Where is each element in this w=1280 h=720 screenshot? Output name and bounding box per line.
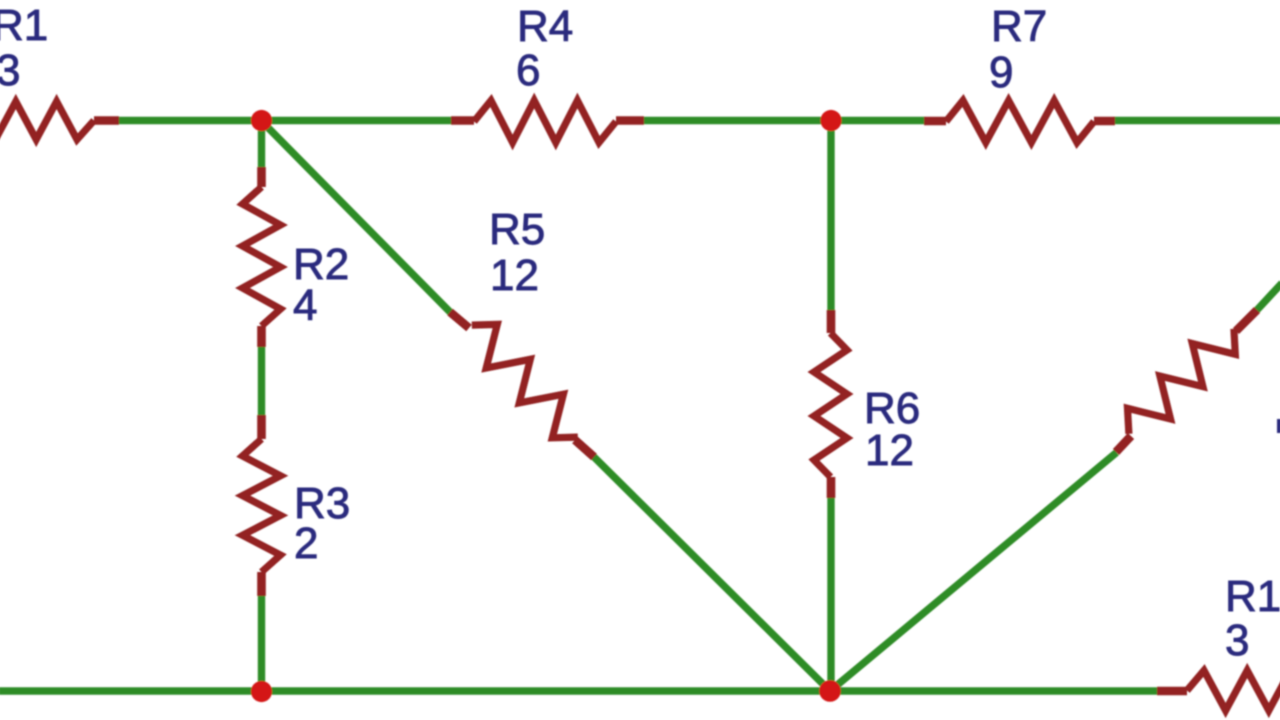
svg-text:R7: R7 [991,2,1047,51]
node A (junction R1/R4/R2/R5) [251,110,272,131]
svg-text:R5: R5 [489,205,545,254]
svg-text:R4: R4 [517,2,573,51]
resistor R10 (partially visible) [1157,671,1280,711]
wire R5 to node D [594,457,831,692]
resistor R1 [0,102,119,140]
wire bottom bus [0,687,1158,694]
wire R1 to node A [119,117,262,124]
wire node A to R5 [261,121,451,313]
wire node B to R6 [827,120,834,311]
svg-text:R1: R1 [0,1,48,50]
resistor R6 [814,310,847,498]
node B (junction R4/R7/R6) [820,110,841,131]
svg-text:R10: R10 [1225,572,1280,621]
wire R4 to node B [643,117,832,124]
label fragment at right edge (R8 value, cut off) [1277,419,1280,433]
svg-text:3: 3 [1225,616,1249,665]
wire R8 to right edge [1257,283,1280,311]
wire R6 to node D [827,497,834,691]
svg-text:2: 2 [294,519,318,568]
node D (junction R5/R6/R8/bottom bus) [819,680,841,702]
node C (junction R3/bottom bus) [251,681,272,702]
wire R7 to right edge [1114,117,1280,124]
wire R2 to R3 [258,346,265,416]
resistor R7 [924,101,1115,143]
resistor R4 [451,101,644,143]
svg-text:6: 6 [516,46,540,95]
wire node D to R8 [830,453,1117,692]
svg-text:4: 4 [293,281,317,330]
resistor R2 [243,167,281,347]
wire node B to R7 [830,117,925,124]
resistor R3 [243,415,281,596]
wire R3 to node C [258,595,265,691]
svg-text:3: 3 [0,46,20,95]
resistor R5 [450,312,594,457]
svg-text:12: 12 [490,251,539,300]
wire node A to R4 [261,117,452,124]
wire node A to R2 [258,120,265,168]
svg-text:9: 9 [989,48,1013,97]
resistor R8 (partially visible) [1116,310,1257,452]
svg-text:12: 12 [865,426,914,475]
